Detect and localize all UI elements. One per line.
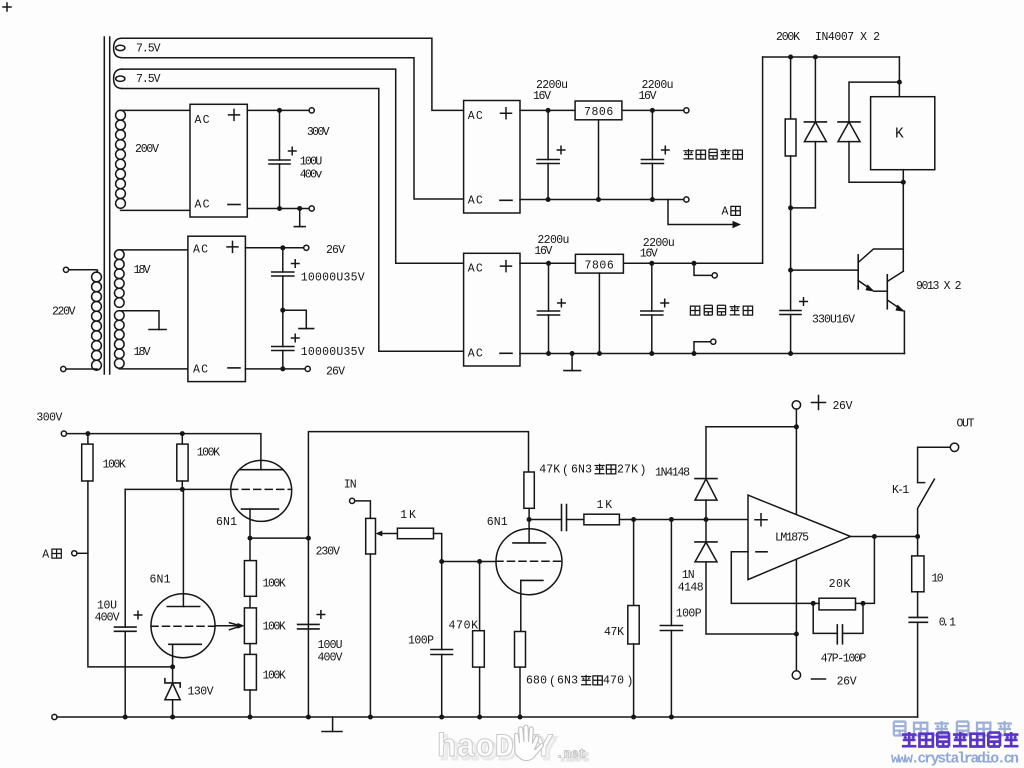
svg-text:300V: 300V	[36, 412, 62, 425]
watermark haoDY.net	[437, 729, 586, 766]
junction	[306, 715, 311, 720]
svg-text:100P: 100P	[676, 608, 702, 621]
wire B2 - output 26V	[245, 368, 305, 370]
svg-text:6N3: 6N3	[571, 464, 592, 477]
svg-text:300V: 300V	[307, 126, 330, 139]
wire V2 grid to pot wiper	[215, 625, 240, 627]
ground symbol bottom rail	[332, 717, 334, 732]
svg-text:6N1: 6N1	[150, 574, 171, 587]
ground mid 26V	[299, 328, 314, 330]
resistor R11 47K plate load	[524, 472, 534, 520]
svg-text:IN4007 X 2: IN4007 X 2	[815, 31, 880, 44]
svg-text:6N1: 6N1	[216, 516, 237, 529]
capacitor C13 100P	[660, 520, 682, 718]
svg-text:10000U35V: 10000U35V	[301, 346, 365, 359]
svg-text:20K: 20K	[829, 578, 851, 591]
svg-text:100K: 100K	[263, 670, 286, 683]
svg-text:7806: 7806	[584, 106, 613, 119]
capacitor C8 330U16V	[780, 270, 807, 353]
junction V3 plate	[527, 517, 532, 522]
svg-text:AC: AC	[193, 364, 208, 377]
wire 7.5V-2 bottom to B4	[122, 89, 464, 352]
wire 7.5V-1 bottom to B3	[122, 58, 464, 199]
terminal A lower	[72, 551, 77, 556]
capacitor C14 47P-100P	[813, 603, 863, 643]
svg-text:100P: 100P	[408, 635, 434, 648]
wire A point to cathode node	[88, 481, 173, 667]
wire B4 + rail	[520, 262, 763, 264]
zener D3 130V	[165, 667, 180, 717]
resistor R1 200K	[785, 57, 796, 208]
svg-text:47K: 47K	[604, 626, 624, 639]
svg-text:26V: 26V	[326, 366, 345, 379]
potentiometer R7 volume	[366, 518, 398, 717]
resistor R12 1K	[584, 514, 748, 525]
regulator U2 7806	[575, 254, 623, 273]
svg-text:(: (	[549, 676, 556, 689]
wire mid tap to ground	[283, 310, 307, 328]
junction	[669, 517, 674, 522]
svg-text:27K: 27K	[617, 464, 638, 477]
label 47K (6N3 27K)	[539, 464, 646, 478]
potentiometer R5 100K	[230, 596, 257, 643]
tube V1 6N1 triode	[231, 460, 292, 538]
junction	[897, 80, 902, 85]
junction	[915, 534, 920, 539]
svg-text:haoD: haoD	[437, 729, 514, 766]
junction	[811, 601, 816, 606]
svg-text:AC: AC	[195, 114, 210, 127]
svg-text:400V: 400V	[318, 652, 343, 665]
op-amp U3 LM1875	[748, 495, 850, 579]
junction	[692, 351, 697, 356]
svg-text:): )	[640, 465, 647, 478]
svg-text:26V: 26V	[833, 400, 853, 413]
ground lower rail	[571, 354, 573, 371]
junction	[631, 715, 636, 720]
svg-text:47P-100P: 47P-100P	[821, 653, 867, 666]
svg-text:200K: 200K	[776, 31, 800, 44]
svg-text:K-1: K-1	[892, 484, 909, 497]
svg-text:(: (	[562, 465, 569, 478]
capacitor C10 100U 400V	[298, 611, 325, 629]
junction	[546, 261, 551, 266]
wire D4 to +26V	[706, 426, 796, 428]
junction	[180, 431, 185, 436]
transformer secondary 18V upper winding	[115, 250, 125, 308]
svg-text:10: 10	[931, 573, 943, 586]
capacitor C4 2200u	[537, 110, 565, 199]
label 放大管灯丝	[690, 305, 752, 315]
tube V2 6N1 triode	[151, 489, 215, 667]
wire tube1 grid node	[125, 488, 231, 490]
resistor R9 470K	[473, 562, 485, 718]
svg-text:.net: .net	[556, 748, 586, 762]
junction	[788, 351, 793, 356]
junction	[277, 206, 282, 211]
junction	[794, 424, 799, 429]
junction	[439, 559, 444, 564]
wire 230V node riser	[308, 432, 528, 717]
svg-text:K: K	[895, 127, 904, 143]
terminal 6V upper	[684, 108, 689, 113]
svg-text:100U: 100U	[318, 639, 343, 652]
junction	[649, 261, 654, 266]
ground center tap	[149, 329, 166, 331]
junction	[546, 351, 551, 356]
diode D2 1N4007	[838, 82, 903, 182]
watermark haoDY.net shadow	[440, 732, 589, 768]
svg-text:LM1875: LM1875	[775, 532, 809, 545]
svg-text:AC: AC	[193, 244, 208, 257]
resistor R3 100K	[177, 434, 188, 490]
svg-text:AC: AC	[468, 110, 483, 123]
terminal +26V	[792, 401, 800, 409]
capacitor C6 2200u	[538, 263, 566, 353]
capacitor C15 0.1	[909, 592, 927, 717]
junction	[788, 205, 793, 210]
svg-text:100K: 100K	[263, 578, 286, 591]
junction	[570, 351, 575, 356]
svg-text:47K: 47K	[539, 464, 560, 477]
capacitor C1 100U 400v	[269, 110, 296, 208]
wire IN to pot	[355, 501, 371, 519]
junction	[170, 715, 175, 720]
junction	[368, 715, 373, 720]
junction	[306, 536, 311, 541]
junction V1 cathode	[248, 536, 253, 541]
svg-text:18V: 18V	[134, 264, 151, 277]
transformer secondary 200V winding	[116, 110, 126, 208]
svg-text:400v: 400v	[300, 169, 323, 182]
regulator U1 7806	[575, 101, 622, 120]
wire B1 + output 300V	[247, 109, 309, 111]
svg-text:IN: IN	[344, 479, 357, 492]
diode D4 1N4148	[695, 427, 717, 520]
bridge rectifier B3 7.5V upper	[464, 101, 520, 214]
terminal 220V bottom	[61, 366, 66, 371]
svg-text:1N: 1N	[682, 569, 695, 582]
coupling capacitor C12	[529, 505, 584, 531]
junction	[597, 351, 602, 356]
wire relay supply riser	[762, 57, 764, 263]
resistor R15 10	[912, 537, 924, 592]
ground B1	[299, 209, 301, 227]
junction V2 cathode	[170, 664, 175, 669]
junction	[546, 197, 551, 202]
svg-text:1K: 1K	[400, 509, 416, 522]
watermark 矿石收音机 light blue	[894, 721, 1012, 735]
terminal stub 6V lower +	[694, 263, 712, 275]
wire A point arrow	[668, 200, 733, 225]
terminal A upper	[684, 197, 689, 202]
junction mid caps	[280, 308, 285, 313]
svg-text:400V: 400V	[95, 612, 120, 625]
junction	[280, 366, 285, 371]
junction	[650, 108, 655, 113]
capacitor C2 10000U35V upper	[272, 248, 299, 310]
terminal 220V top	[63, 267, 68, 272]
junction	[631, 517, 636, 522]
wire bottom ground rail	[57, 716, 918, 718]
junction	[439, 715, 444, 720]
svg-text:16V: 16V	[533, 90, 551, 103]
terminal -26V	[792, 671, 800, 679]
switch K-1	[918, 447, 951, 536]
7806 ground pin	[598, 120, 600, 200]
svg-text:AC: AC	[195, 199, 210, 212]
capacitor C7 2200u	[641, 263, 669, 353]
svg-text:220V: 220V	[52, 306, 76, 319]
junction	[477, 715, 482, 720]
capacitor C3 10000U35V lower	[272, 310, 299, 369]
wire 200V top to B1	[121, 109, 191, 111]
svg-text:130V: 130V	[188, 686, 214, 699]
transformer secondary 7.5V winding 2	[114, 69, 125, 88]
resistor R6 100K	[244, 644, 256, 717]
svg-text:www.crystalradio.cn: www.crystalradio.cn	[891, 752, 1019, 768]
wire B3 + rail	[520, 109, 684, 111]
wire B2 + output 26V	[245, 247, 303, 249]
svg-text:100K: 100K	[103, 459, 126, 472]
label 稳压管灯丝	[683, 149, 742, 159]
svg-text:470: 470	[603, 675, 624, 688]
wire B3 - rail	[520, 199, 684, 201]
svg-text:330U16V: 330U16V	[812, 314, 855, 327]
junction	[669, 715, 674, 720]
junction	[180, 487, 185, 492]
svg-text:26V: 26V	[326, 244, 345, 257]
junction	[248, 715, 253, 720]
resistor R2 100K	[82, 434, 93, 481]
capacitor C5 2200u	[641, 110, 669, 199]
junction	[794, 632, 799, 637]
svg-text:100U: 100U	[300, 156, 323, 169]
junction	[704, 517, 709, 522]
junction	[813, 55, 818, 60]
svg-text:6N3: 6N3	[557, 675, 578, 688]
junction	[280, 245, 285, 250]
junction	[901, 180, 906, 185]
svg-text:OUT: OUT	[957, 418, 975, 431]
svg-text:16V: 16V	[640, 248, 658, 261]
svg-text:16V: 16V	[639, 90, 657, 103]
capacitor C9 10U 400V	[115, 489, 142, 717]
terminal stub 6V lower -	[694, 342, 711, 354]
svg-text:10000U35V: 10000U35V	[301, 272, 365, 285]
junction	[788, 268, 793, 273]
svg-text:): )	[627, 676, 634, 689]
wire 200K to D1	[791, 207, 816, 209]
watermark hand logo	[514, 725, 543, 761]
junction	[861, 601, 866, 606]
wire to tube V3 grid	[442, 561, 496, 563]
resistor R13 47K	[628, 520, 639, 718]
wire 7.5V-1 top to B3	[122, 38, 464, 110]
junction	[518, 715, 523, 720]
wire B4 - rail	[520, 353, 905, 355]
svg-text:7806: 7806	[585, 259, 614, 272]
wire 7.5V-2 top to B4	[122, 69, 464, 263]
terminal ground rail left	[52, 714, 57, 719]
wire relay top pin	[898, 57, 900, 97]
svg-text:AC: AC	[468, 263, 483, 276]
terminal 300V	[309, 108, 314, 113]
diode D5 1N4148	[695, 520, 796, 635]
junction	[123, 715, 128, 720]
junction	[85, 431, 90, 436]
svg-text:26V: 26V	[837, 676, 857, 689]
svg-text:1K: 1K	[597, 499, 613, 512]
junction	[649, 351, 654, 356]
terminal OUT	[950, 443, 958, 451]
transistor Q1 9013	[858, 249, 903, 292]
svg-text:AC: AC	[468, 194, 483, 207]
bridge rectifier B4 7.5V lower	[464, 253, 520, 366]
7806 U2 ground pin	[598, 273, 600, 353]
terminal B1 -	[309, 206, 314, 211]
wire A terminal stub	[77, 552, 88, 554]
capacitor C11 100P	[431, 562, 453, 718]
svg-text:18V: 18V	[134, 346, 151, 359]
junction	[477, 559, 482, 564]
wire V+ supply	[795, 409, 797, 514]
svg-text:9013 X 2: 9013 X 2	[916, 280, 962, 293]
svg-text:AC: AC	[468, 347, 483, 360]
transformer primary 220V winding	[66, 270, 102, 370]
junction	[692, 261, 697, 266]
junction	[297, 206, 302, 211]
wire inverting input loop	[731, 552, 813, 604]
junction	[650, 197, 655, 202]
relay K coil	[871, 97, 935, 170]
label +26V	[812, 396, 826, 410]
junction	[788, 55, 793, 60]
resistor R14 20K	[813, 537, 874, 610]
svg-text:7.5V: 7.5V	[136, 43, 161, 56]
wire V1 cathode to 230V node	[250, 537, 308, 539]
svg-text:200V: 200V	[135, 143, 159, 156]
junction	[546, 108, 551, 113]
svg-text:16V: 16V	[534, 245, 552, 258]
diode D1 1N4007	[804, 57, 826, 208]
svg-text:100K: 100K	[197, 447, 220, 460]
wire 200K to Q1 base	[791, 208, 858, 270]
transistor Q2 9013	[887, 271, 905, 353]
junction	[277, 108, 282, 113]
terminal IN	[350, 498, 355, 503]
label 680 (6N3 470)	[526, 675, 633, 689]
transformer secondary 7.5V winding 1	[114, 38, 125, 57]
svg-text:7.5V: 7.5V	[136, 73, 161, 86]
terminal 300V input	[61, 431, 66, 436]
svg-text:100K: 100K	[263, 621, 286, 634]
svg-text:A: A	[42, 549, 49, 562]
junction	[596, 197, 601, 202]
label -26V	[812, 678, 826, 680]
resistor R4 100K	[244, 538, 256, 596]
wire 300V rail	[67, 434, 261, 470]
svg-text:1N4148: 1N4148	[655, 467, 690, 480]
svg-text:470K: 470K	[449, 620, 479, 633]
junction	[872, 534, 877, 539]
transformer center tap wire	[119, 311, 159, 330]
wire 18V bottom to B2	[119, 368, 188, 370]
transformer secondary 18V lower winding	[115, 311, 125, 369]
wire B1 - output	[247, 208, 309, 210]
terminal 26V +	[304, 245, 309, 250]
svg-text:6N1: 6N1	[487, 516, 508, 529]
terminal 26V -	[305, 366, 310, 371]
stray plus mark top-left	[3, 3, 11, 11]
svg-text:0. 1: 0. 1	[939, 617, 956, 630]
wire relay bottom to collectors	[902, 170, 904, 272]
wire 18V top to B2	[119, 249, 188, 251]
tube V3 6N1 triode	[496, 520, 562, 632]
wire relay top rail	[763, 56, 900, 58]
wire V- supply	[795, 560, 797, 671]
svg-text:A: A	[722, 206, 729, 219]
svg-text:680: 680	[526, 675, 547, 688]
transformer T1 core	[104, 37, 109, 374]
resistor R10 680	[515, 632, 526, 718]
resistor R8 1K	[397, 528, 441, 561]
bridge rectifier B1 200V	[190, 104, 247, 217]
watermark 精华电子文摘网 purple	[902, 732, 1018, 746]
svg-text:4148: 4148	[678, 582, 704, 595]
wire 200V bottom to B1	[121, 209, 191, 211]
svg-text:230V: 230V	[316, 546, 340, 559]
wire output	[850, 536, 917, 538]
bridge rectifier B2 18V	[188, 236, 246, 381]
